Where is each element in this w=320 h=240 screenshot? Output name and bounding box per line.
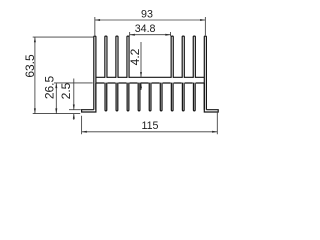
svg-text:4.2: 4.2 [128,48,142,65]
svg-text:34.8: 34.8 [135,23,156,35]
svg-text:115: 115 [141,120,158,132]
svg-text:93: 93 [141,9,153,21]
svg-text:26.5: 26.5 [43,75,57,99]
svg-text:2.5: 2.5 [59,82,73,99]
svg-text:63.5: 63.5 [23,54,37,78]
